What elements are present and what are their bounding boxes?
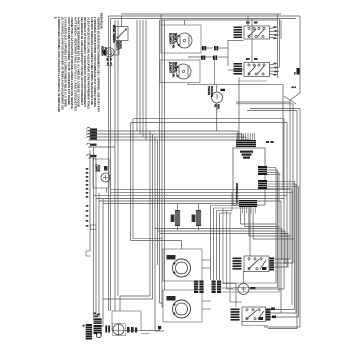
svg-text:HORLOGE ELECT.: HORLOGE ELECT. (235, 183, 237, 204)
svg-text:PORTE: PORTE (103, 47, 105, 55)
svg-text:SURFACE AR.: SURFACE AR. (171, 33, 174, 49)
svg-text:TEMOIN: TEMOIN (207, 86, 209, 95)
svg-text:VERIFIER LE BON FONCTIONNEMENT: VERIFIER LE BON FONCTIONNEMENT DE L'APPA… (96, 17, 100, 112)
svg-text:ELEMENT: ELEMENT (169, 62, 171, 74)
svg-text:RECEPT.: RECEPT. (174, 33, 176, 43)
svg-text:SURFACE: SURFACE (210, 86, 213, 97)
svg-text:SURFACE AR.: SURFACE AR. (171, 62, 174, 78)
svg-text:ELEMENT: ELEMENT (169, 33, 171, 45)
svg-text:REMARQUE :: REMARQUE : (100, 13, 104, 30)
svg-text:RECEPT.: RECEPT. (174, 62, 176, 72)
svg-text:INTER. VERROU: INTER. VERROU (112, 25, 114, 43)
svg-text:AV.: AV. (214, 104, 217, 108)
svg-text:FOUR: FOUR (97, 165, 99, 172)
svg-text:VERROU: VERROU (101, 46, 103, 56)
svg-text:SELECT.: SELECT. (115, 41, 117, 51)
